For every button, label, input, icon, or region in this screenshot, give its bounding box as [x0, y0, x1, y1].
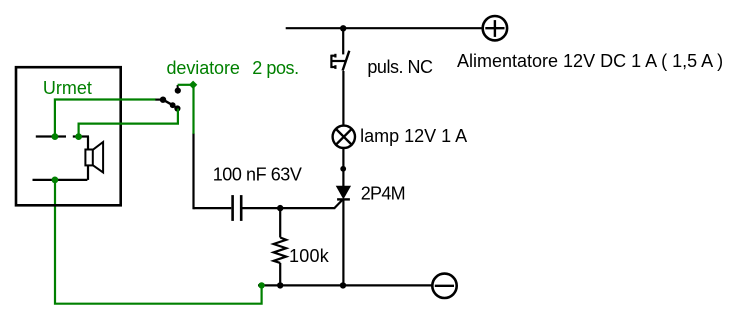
terminal stub 1	[36, 135, 66, 137]
wire thyristor cathode down to bottom rail	[342, 199, 344, 285]
wire speaker to bottom stub	[87, 165, 89, 180]
wire stub 2 to speaker	[87, 137, 89, 151]
wire from top node down to pushbutton	[342, 28, 344, 54]
svg-text:100k: 100k	[289, 246, 330, 266]
node green dot stub 1	[52, 133, 59, 140]
lamp	[333, 126, 355, 148]
node green dot stub 2	[75, 133, 82, 140]
svg-text:100 nF 63V: 100 nF 63V	[213, 165, 302, 185]
wire capacitor left lead	[194, 207, 232, 209]
supply negative terminal	[432, 274, 456, 298]
wire gate horizontal	[280, 207, 335, 209]
node green diamond branch	[189, 81, 197, 89]
switch SPDT deviatore	[160, 85, 181, 112]
wire top horizontal to supply	[286, 27, 483, 29]
node junction top	[340, 25, 346, 31]
wire green net 1 stub1 to switch pole	[55, 100, 156, 137]
terminal stub 3 bottom	[33, 179, 88, 181]
node between lamp and thyristor	[340, 166, 346, 172]
capacitor C 100 nF	[233, 195, 242, 221]
wire bottom rail	[258, 284, 432, 286]
supply positive terminal	[483, 16, 507, 40]
node gate junction	[277, 205, 283, 211]
node green dot stub 3	[52, 177, 59, 184]
svg-text:lamp 12V 1 A: lamp 12V 1 A	[360, 126, 467, 146]
wire capacitor right lead	[242, 207, 280, 209]
svg-text:2P4M: 2P4M	[361, 183, 405, 203]
svg-text:Alimentatore 12V DC 1 A ( 1,5: Alimentatore 12V DC 1 A ( 1,5 A )	[457, 51, 723, 71]
resistor R 100k	[274, 208, 287, 285]
terminal stub 2	[73, 135, 89, 137]
thyristor 2P4M	[334, 186, 350, 208]
wire green from top throw to branch node	[178, 84, 193, 86]
svg-text:2 pos.: 2 pos.	[252, 58, 298, 78]
wire vertical black from switch branch to capacitor	[192, 133, 194, 209]
pushbutton puls. NC	[331, 51, 349, 71]
svg-text:Urmet: Urmet	[43, 78, 92, 98]
speaker	[85, 142, 103, 172]
svg-text:deviatore: deviatore	[167, 58, 240, 78]
Urmet box	[16, 67, 121, 205]
node resistor bottom	[277, 282, 283, 288]
node green tap on bottom rail	[258, 282, 264, 288]
wire switch pole lead	[155, 98, 163, 100]
wire green bottom return to Urmet	[55, 180, 262, 304]
node thyristor bottom	[340, 282, 346, 288]
wire pushbutton to lamp	[342, 71, 344, 126]
wire green net 2 from bottom throw to stub2	[79, 109, 178, 137]
svg-text:puls. NC: puls. NC	[367, 57, 433, 77]
wire lamp to thyristor	[342, 148, 344, 187]
wire green vertical branch down	[192, 85, 194, 134]
